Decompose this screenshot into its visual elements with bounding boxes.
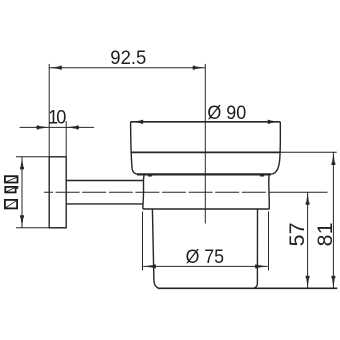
arrow O90 left [131, 120, 144, 124]
extension line 57 top (solid continuation of centerline) [270, 191, 328, 193]
dimension 92.5: left extension line down wall face [48, 64, 50, 157]
arrow 92.5 right [193, 66, 206, 70]
dish top edge doubling as diameter dimension line [131, 121, 281, 123]
text 10 [48, 106, 66, 128]
dish right edge [270, 122, 280, 175]
dimension 57: line [307, 192, 309, 288]
svg-text:10: 10 [48, 106, 66, 128]
dimension 10: right extension line [65, 121, 67, 157]
notdef box 1 (rotated missing glyph) [5, 176, 18, 182]
arm bottom line [66, 203, 143, 205]
left height dimension: bottom extension [16, 227, 66, 229]
cove merge blob left [148, 175, 152, 177]
arrow 81 up [331, 152, 335, 165]
horizontal centerline (dash-dot) [44, 191, 270, 193]
dimension 92.5: line [49, 67, 205, 69]
glass right wall [254, 209, 258, 288]
dimension 10: line segments [20, 126, 94, 128]
arrow O90 right [268, 120, 281, 124]
arrow 92.5 left [49, 66, 62, 70]
glass bottom + extension line to dims [158, 287, 337, 289]
text 81 (rotated) [313, 222, 337, 246]
svg-text:Ø 75: Ø 75 [186, 245, 224, 267]
arrow O75 right [255, 264, 268, 268]
arrow left-dim up [20, 157, 24, 170]
notdef box 3 (rotated missing glyph) [5, 200, 17, 209]
cove merge blob right [260, 175, 264, 177]
svg-text:92.5: 92.5 [110, 48, 146, 70]
svg-text:81: 81 [313, 222, 337, 246]
dimension Ø75: line [143, 265, 267, 267]
extension line 81 top [280, 151, 336, 153]
left height dimension: line [21, 157, 23, 228]
arm top line [66, 180, 143, 182]
svg-text:Ø 90: Ø 90 [207, 101, 246, 123]
arrow 10 right (points left) [66, 125, 79, 129]
left height dimension: top extension [16, 156, 49, 158]
dish step line [131, 151, 281, 153]
glass left wall [152, 209, 158, 288]
dimension 81: line [332, 152, 334, 288]
arrow left-dim down [20, 215, 24, 228]
arrow O75 left [143, 264, 156, 268]
dish left edge [131, 122, 138, 175]
svg-text:57: 57 [285, 222, 309, 246]
notdef box 2 (rotated missing glyph) [5, 187, 17, 193]
dish bottom line (thick) [137, 173, 271, 175]
dimension Ø75: left extension line [142, 212, 144, 271]
vertical centerline / extension 92.5 right [204, 64, 206, 224]
arrow 57 up [306, 192, 310, 205]
arrow 10 left (points right) [37, 125, 50, 129]
text 92.5 [110, 48, 146, 70]
holder band bottom line [143, 208, 270, 210]
text Ø 75 [186, 245, 224, 267]
holder band right cove edge [268, 175, 271, 208]
arrow 81 down [331, 276, 335, 289]
arrow 57 down [306, 276, 310, 289]
text Ø 90 [207, 101, 246, 123]
dimension Ø75: right extension line [268, 212, 270, 271]
holder band left cove edge [143, 175, 144, 208]
wall plate [49, 157, 66, 228]
text 57 (rotated) [285, 222, 309, 246]
